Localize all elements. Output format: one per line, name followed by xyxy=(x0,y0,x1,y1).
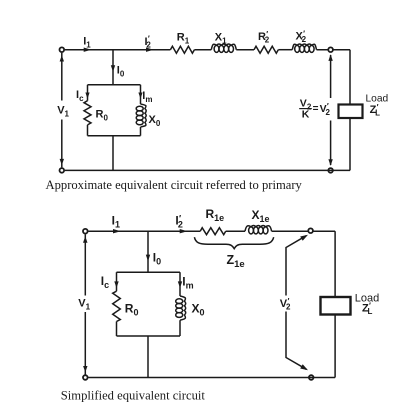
label X1 xyxy=(215,31,227,45)
node secondary bottom xyxy=(328,168,333,173)
node secondary top (V2') xyxy=(328,47,333,52)
current arrow I2' (referred secondary) xyxy=(146,48,154,52)
label I1 (simplified) xyxy=(112,213,120,229)
current arrow I2' (simplified) xyxy=(180,229,188,233)
label ZL' xyxy=(370,103,381,118)
inductor X0 (simplified) xyxy=(176,272,186,336)
label ZL' (simplified) xyxy=(362,301,373,316)
label Z1e xyxy=(227,253,245,270)
wire center stub below box xyxy=(112,136,114,171)
wire bottom: left terminal to right corner xyxy=(65,169,350,171)
current arrow Ic (simplified) xyxy=(114,281,118,288)
wire bottom (simplified) xyxy=(88,377,335,379)
svg-text:=: = xyxy=(313,103,319,114)
wire parallel box bottom xyxy=(88,135,141,137)
label Ic xyxy=(76,89,84,103)
terminal bottom-left (primary -) xyxy=(60,168,65,173)
svg-text:V′2: V′2 xyxy=(280,297,291,312)
current arrow I1 (simplified) xyxy=(113,229,121,233)
wire shunt (simplified): junction down xyxy=(147,231,149,272)
svg-text:Simplified equivalent circuit: Simplified equivalent circuit xyxy=(61,389,206,403)
label R1e xyxy=(206,207,225,223)
voltage arrow V1 up (simplified) xyxy=(83,236,88,243)
wire shunt: junction down to parallel box xyxy=(112,50,114,85)
terminal top-left (simplified primary +) xyxy=(83,229,88,234)
resistor R2' xyxy=(254,46,278,53)
caption: approximate equivalent circuit referred to primary xyxy=(46,178,303,192)
label I0 (simplified) xyxy=(153,251,161,267)
label R2' xyxy=(258,30,270,45)
inductor X2' xyxy=(292,44,316,52)
svg-text:Approximate equivalent circuit: Approximate equivalent circuit referred … xyxy=(46,178,303,192)
wire left vertical (V1 side, simplified) xyxy=(84,234,86,374)
resistor R0 (simplified) xyxy=(113,272,121,336)
label V2' (simplified) xyxy=(280,297,291,312)
voltage arrow V1 down (simplified) xyxy=(83,366,87,372)
load impedance ZL' box xyxy=(339,105,363,119)
wire top: X1 to R2' xyxy=(236,49,254,51)
voltage arrow V2' (bent measure, simplified) xyxy=(286,235,308,370)
svg-text:V′2: V′2 xyxy=(320,102,331,117)
wire top: R1 to X1 xyxy=(194,49,211,51)
inductor X0 (magnetizing) xyxy=(136,85,146,136)
label I0 xyxy=(117,65,125,79)
resistor R0 (core loss) xyxy=(84,85,91,136)
resistor R1 xyxy=(170,46,194,53)
wire top: left terminal to R1 xyxy=(65,49,171,51)
current arrow I0 (simplified) xyxy=(146,255,150,262)
inductor X1e xyxy=(245,226,272,234)
label Im xyxy=(142,90,152,104)
current arrow Im xyxy=(138,93,142,99)
current arrow I0 xyxy=(111,65,115,72)
label X0 xyxy=(149,114,161,128)
label R0 xyxy=(96,109,109,123)
caption: simplified equivalent circuit xyxy=(61,389,206,403)
label X0 (simplified) xyxy=(192,302,205,318)
wire top: R2' to X2' xyxy=(278,49,292,51)
label Im (simplified) xyxy=(182,275,193,291)
label X1e xyxy=(252,208,270,224)
wire left vertical (V1 side) xyxy=(61,53,63,168)
voltage arrow V1 up xyxy=(60,55,64,61)
node secondary bottom (simplified) xyxy=(309,375,314,380)
node secondary top (simplified V2') xyxy=(308,228,313,233)
voltage arrow V2' (vertical measure) xyxy=(328,54,332,166)
wire top: X1e to right corner xyxy=(272,230,336,232)
wire parallel box top (simplified) xyxy=(117,271,181,273)
wire top: X2' to right corner xyxy=(317,49,351,51)
wire top: left terminal to R1e xyxy=(88,230,200,232)
label Load (simplified) xyxy=(355,293,379,305)
resistor R1e xyxy=(200,228,226,235)
label R0 (simplified) xyxy=(125,302,139,318)
current arrow I1 xyxy=(84,48,92,52)
svg-text:R′2: R′2 xyxy=(258,30,270,45)
label V1 (simplified) xyxy=(78,298,90,312)
label R1 xyxy=(177,31,190,45)
inductor X1 xyxy=(211,44,236,52)
wire parallel box bottom (simplified) xyxy=(117,335,181,337)
label I1 xyxy=(83,36,91,50)
wire right vertical to load xyxy=(349,50,351,171)
current arrow Ic xyxy=(85,93,89,99)
terminal bottom-left (simplified primary -) xyxy=(83,375,88,380)
label V1 xyxy=(57,105,69,119)
current arrow Im (simplified) xyxy=(178,281,182,288)
svg-text:K: K xyxy=(302,109,310,121)
brace Z1e (equivalent impedance) xyxy=(194,237,273,248)
label Ic (simplified) xyxy=(101,274,109,290)
label I2' (simplified) xyxy=(175,214,182,230)
wire parallel box top xyxy=(88,84,141,86)
wire right vertical to load (simplified) xyxy=(334,231,336,377)
terminal top-left (primary +) xyxy=(60,47,65,52)
label X2' xyxy=(296,29,307,44)
label V2/K = V2' xyxy=(299,97,330,120)
voltage arrow V1 down xyxy=(60,159,64,165)
label I2' xyxy=(145,35,152,50)
load impedance ZL' box (simplified) xyxy=(321,297,351,315)
wire center stub below box (simplified) xyxy=(147,336,149,378)
wire top: R1e to X1e xyxy=(226,230,245,232)
svg-text:X′2: X′2 xyxy=(296,29,307,44)
label Load xyxy=(366,94,389,105)
